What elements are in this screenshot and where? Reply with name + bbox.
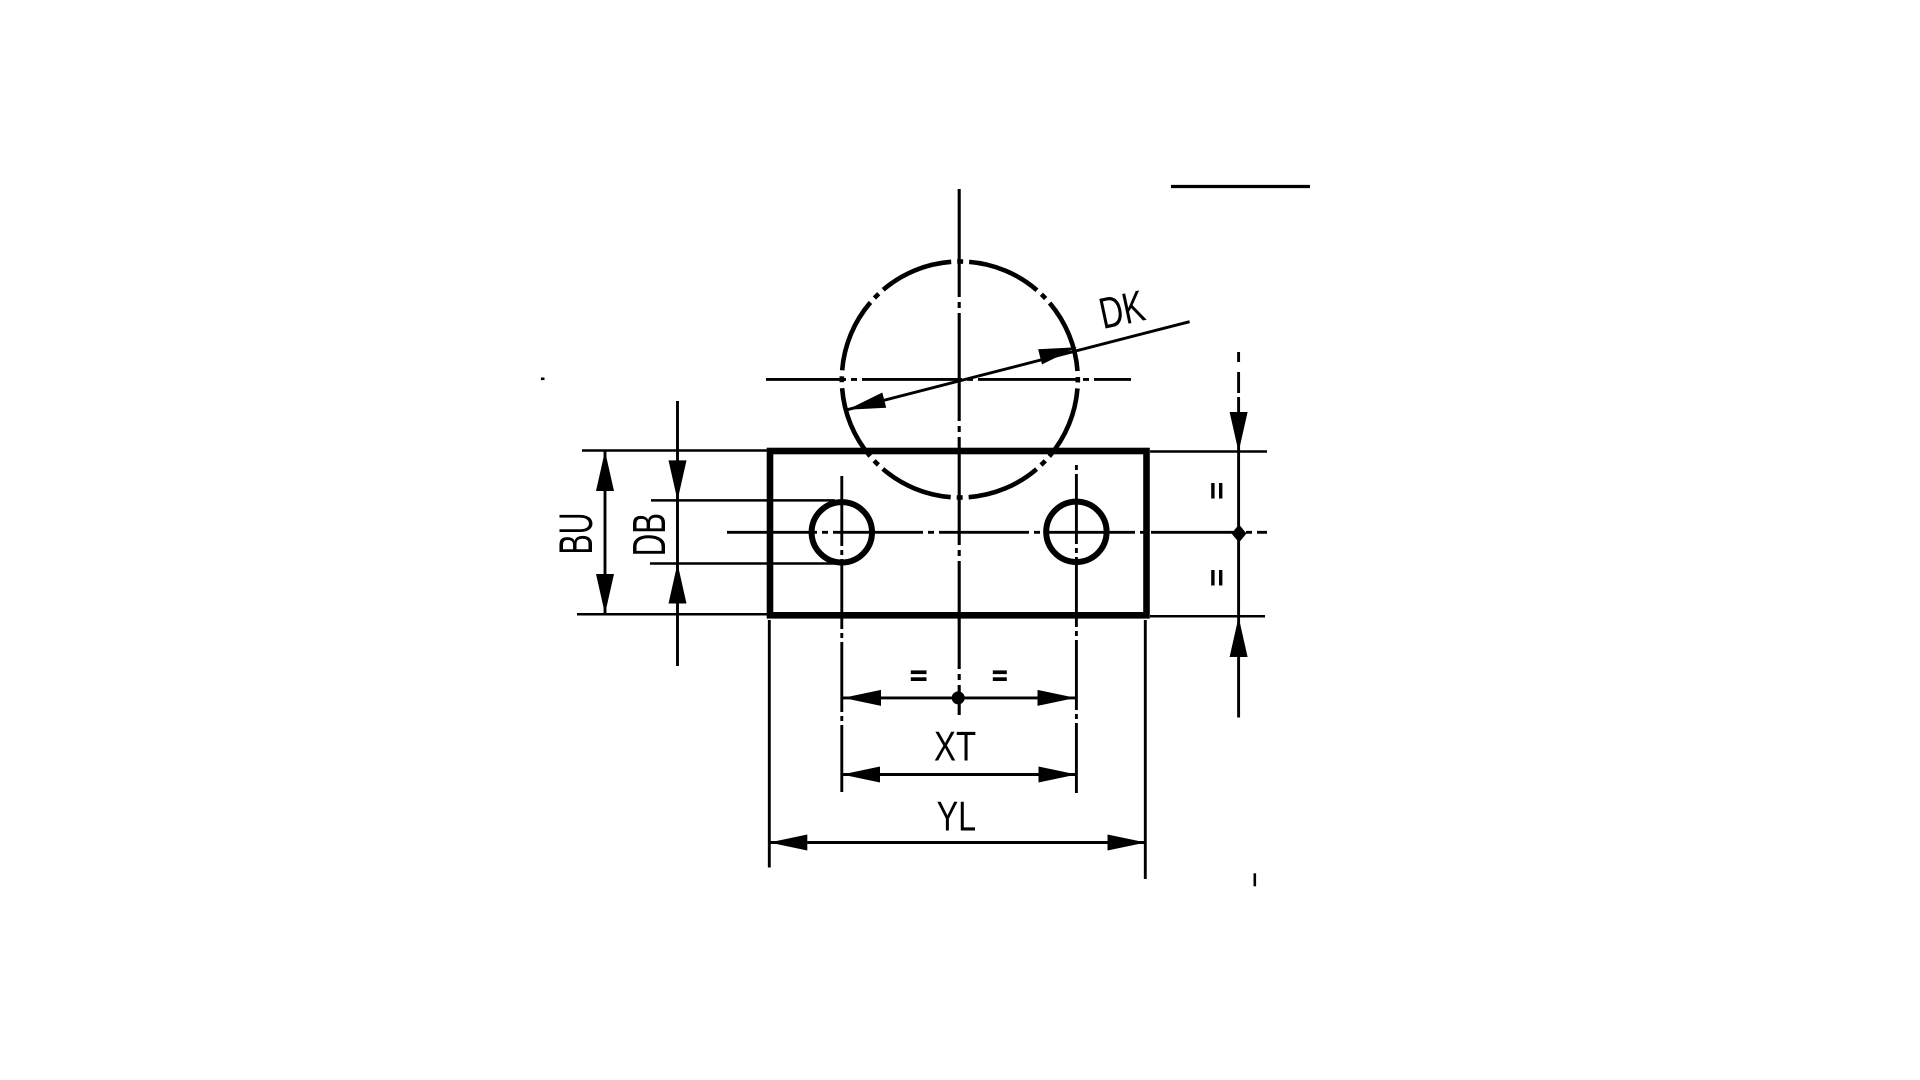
arrowhead equal-spacing right <box>1038 690 1076 706</box>
arrowhead BU bottom <box>596 574 614 614</box>
diagonal diameter dimension line DK <box>847 322 1189 410</box>
extension line DB bottom (hole tangent) <box>650 562 849 565</box>
horizontal centerline of circle DK <box>766 378 1131 381</box>
arrowhead right of DK dimension <box>1038 347 1077 364</box>
stray tick bottom right <box>1254 873 1257 886</box>
equal-spacing dimension line (bottom) <box>843 696 1076 699</box>
extension line DB top (hole tangent) <box>651 499 835 502</box>
bolt circle DK (chain circle) <box>842 262 1078 498</box>
vertical centerline of part <box>958 189 961 715</box>
right equal dimension line <box>1237 352 1240 718</box>
dimension line DB <box>676 401 679 666</box>
dimension line XT <box>842 773 1077 776</box>
arrowhead BU top <box>596 451 614 491</box>
equality mark lower right (rotated =) <box>1211 570 1214 586</box>
equality mark left of centerline <box>911 670 927 674</box>
arrowhead XT left <box>842 767 880 783</box>
extension line top right <box>1150 450 1267 453</box>
dimension line YL <box>769 841 1145 844</box>
extension line YL left <box>768 620 771 868</box>
arrowhead YL right <box>1108 835 1146 851</box>
arrowhead YL left <box>769 835 807 851</box>
extension line top left (BU) <box>582 449 772 452</box>
svg-text:BU: BU <box>549 513 602 555</box>
stray speck left <box>541 378 545 381</box>
svg-text:XT: XT <box>934 723 976 770</box>
arrowhead DB top (outside, pointing down) <box>669 460 687 500</box>
hole right <box>1046 502 1106 562</box>
vertical centerline of left hole <box>840 476 843 792</box>
arrowhead XT right <box>1039 767 1077 783</box>
arrowhead right-dim top (outside, pointing down) <box>1230 412 1248 452</box>
node dot at centerline <box>952 691 965 704</box>
vertical centerline of right hole <box>1075 464 1078 794</box>
horizontal centerline of holes <box>727 531 1267 534</box>
svg-text:DB: DB <box>623 513 675 556</box>
svg-text:YL: YL <box>937 793 977 840</box>
arrowhead equal-spacing left <box>843 690 881 706</box>
extension line bottom right <box>1150 615 1265 618</box>
equality mark right of centerline <box>993 670 1007 674</box>
extension line YL right <box>1144 620 1147 879</box>
extension line bottom left (BU) <box>577 613 772 616</box>
node diamond on centerline <box>1232 525 1247 543</box>
top-right reference line <box>1171 185 1310 188</box>
arrowhead left of DK dimension <box>847 393 886 410</box>
plate outline <box>770 451 1147 615</box>
arrowhead right-dim bottom (outside, pointing up) <box>1230 617 1248 657</box>
equality mark upper right (rotated =) <box>1211 483 1214 499</box>
arrowhead DB bottom (outside, pointing up) <box>669 564 687 604</box>
hole left <box>812 502 872 562</box>
dimension line BU <box>604 451 607 614</box>
